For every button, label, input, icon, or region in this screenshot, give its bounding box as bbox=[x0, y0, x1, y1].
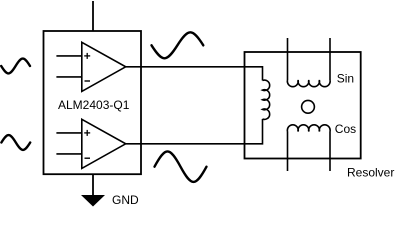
svg-text:Sin: Sin bbox=[337, 72, 354, 86]
svg-text:Resolver: Resolver bbox=[347, 166, 394, 180]
wire cos terminal right bbox=[329, 132, 331, 172]
op-amp driver box U1 ALM2403-Q1 bbox=[44, 31, 142, 174]
rotor circle bbox=[302, 100, 315, 113]
inductor cos winding bbox=[287, 125, 330, 132]
wire EXC+ bbox=[126, 67, 263, 81]
sine wave input bottom bbox=[1, 135, 30, 150]
op-amp A1 bbox=[56, 42, 125, 91]
wire cos terminal left bbox=[287, 132, 289, 172]
sine wave output EXC+ bbox=[152, 32, 204, 58]
resolver box bbox=[245, 52, 361, 159]
ground bbox=[81, 174, 105, 206]
wire sin terminal left bbox=[287, 38, 289, 80]
svg-text:ALM2403-Q1: ALM2403-Q1 bbox=[58, 98, 130, 112]
op-amp A2 bbox=[56, 119, 125, 168]
svg-text:Cos: Cos bbox=[335, 122, 356, 136]
wire EXC- bbox=[126, 119, 263, 144]
sine wave input top bbox=[1, 59, 30, 74]
inductor excitation winding bbox=[263, 80, 270, 119]
sine wave output EXC- bbox=[155, 151, 207, 181]
inductor sin winding bbox=[287, 80, 330, 87]
svg-text:GND: GND bbox=[112, 193, 139, 207]
wire sin terminal right bbox=[329, 38, 331, 80]
supply wire bbox=[92, 1, 94, 31]
